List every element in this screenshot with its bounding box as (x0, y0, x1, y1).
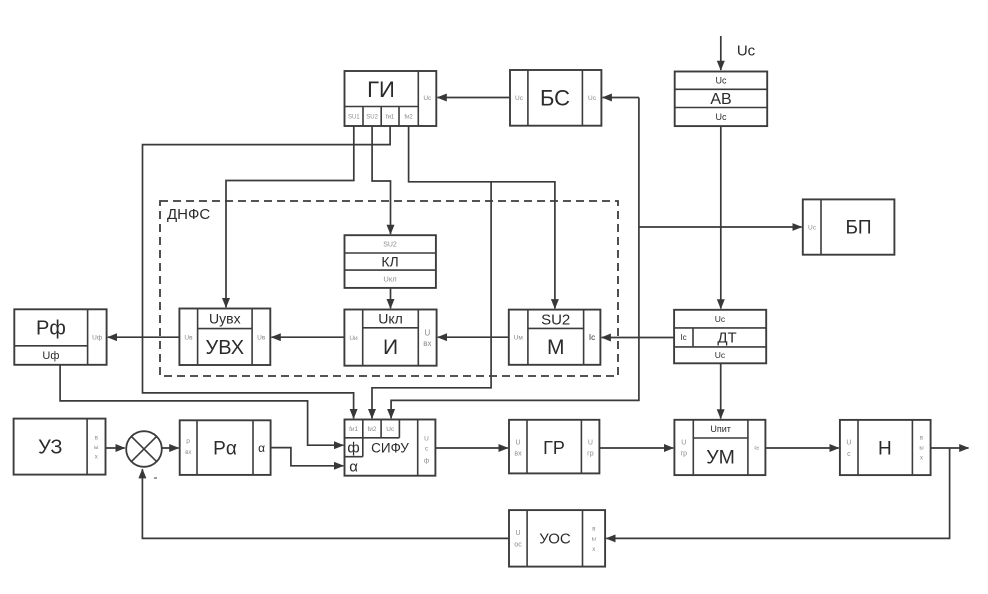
svg-text:U: U (681, 440, 686, 447)
svg-text:УОС: УОС (539, 531, 571, 548)
svg-text:U: U (515, 530, 520, 537)
svg-text:УЗ: УЗ (38, 437, 62, 459)
svg-text:Uc: Uc (737, 42, 756, 59)
svg-text:вх: вх (514, 450, 522, 457)
svg-text:SU1: SU1 (348, 115, 360, 121)
svg-text:Uм: Uм (514, 335, 524, 342)
svg-text:Рф: Рф (36, 318, 66, 340)
svg-text:в: в (592, 527, 595, 533)
svg-text:Ic: Ic (680, 333, 686, 342)
svg-text:Ic: Ic (589, 333, 595, 342)
svg-text:х: х (920, 456, 923, 462)
svg-text:х: х (95, 455, 98, 461)
svg-text:гр: гр (681, 451, 688, 458)
svg-text:И: И (383, 336, 398, 359)
svg-text:Н: Н (878, 438, 892, 459)
svg-text:в: в (95, 436, 98, 442)
svg-text:УВХ: УВХ (206, 337, 245, 359)
svg-text:Uc: Uc (808, 224, 817, 231)
svg-text:Uc: Uc (715, 350, 726, 360)
svg-text:SU2: SU2 (383, 242, 397, 249)
svg-text:БС: БС (540, 85, 570, 110)
svg-text:УМ: УМ (706, 447, 735, 469)
svg-text:ос: ос (514, 542, 522, 549)
svg-text:в: в (920, 436, 923, 442)
svg-text:Рα: Рα (213, 438, 237, 459)
svg-text:U: U (424, 435, 429, 442)
svg-text:ДНФС: ДНФС (167, 206, 210, 223)
svg-text:U: U (515, 440, 520, 447)
svg-text:Uв: Uв (184, 335, 193, 342)
svg-text:х: х (592, 547, 595, 553)
svg-text:ы: ы (919, 446, 923, 452)
svg-text:U: U (425, 328, 431, 337)
svg-text:Uc: Uc (515, 95, 524, 102)
svg-text:-: - (154, 470, 158, 484)
svg-text:вх: вх (423, 339, 431, 348)
svg-text:КЛ: КЛ (381, 254, 398, 270)
svg-text:fи2: fи2 (404, 115, 413, 121)
svg-text:ГИ: ГИ (367, 77, 395, 102)
svg-text:гр: гр (587, 450, 594, 457)
svg-text:с: с (847, 451, 851, 458)
svg-text:Uc: Uc (715, 314, 726, 324)
svg-text:Uc: Uc (386, 426, 395, 433)
svg-text:fи1: fи1 (386, 115, 395, 121)
svg-text:Uc: Uc (716, 76, 727, 86)
svg-text:М: М (547, 336, 565, 359)
svg-text:α: α (349, 459, 358, 476)
svg-text:SU2: SU2 (541, 311, 570, 328)
svg-text:fи2: fи2 (367, 426, 376, 433)
svg-text:АВ: АВ (710, 91, 731, 108)
svg-text:БП: БП (845, 218, 871, 239)
svg-text:ф: ф (347, 440, 359, 457)
svg-text:Uф: Uф (92, 334, 103, 341)
svg-text:α: α (258, 441, 265, 455)
svg-text:Uc: Uc (423, 95, 432, 102)
svg-text:SU2: SU2 (366, 115, 378, 121)
svg-text:Uкл: Uкл (378, 311, 403, 327)
svg-text:вх: вх (185, 450, 191, 456)
svg-text:ы: ы (94, 445, 98, 451)
svg-text:Uф: Uф (42, 350, 59, 362)
svg-text:ГР: ГР (543, 438, 565, 458)
svg-text:Uc: Uc (588, 95, 597, 102)
svg-text:Uпит: Uпит (710, 424, 731, 434)
svg-text:Uи: Uи (349, 335, 358, 342)
svg-text:≈: ≈ (754, 443, 759, 453)
svg-text:Uкл: Uкл (383, 275, 396, 284)
svg-text:ы: ы (592, 537, 596, 543)
svg-text:Uувх: Uувх (209, 311, 241, 327)
svg-text:ДТ: ДТ (717, 330, 736, 347)
svg-text:Р: Р (186, 440, 190, 446)
svg-text:U: U (846, 440, 851, 447)
svg-text:Uв: Uв (257, 335, 266, 342)
svg-text:U: U (588, 440, 593, 447)
svg-text:fи1: fи1 (349, 426, 358, 433)
svg-text:ф: ф (424, 457, 430, 464)
svg-text:Uc: Uc (716, 112, 727, 122)
svg-text:СИФУ: СИФУ (371, 440, 409, 455)
